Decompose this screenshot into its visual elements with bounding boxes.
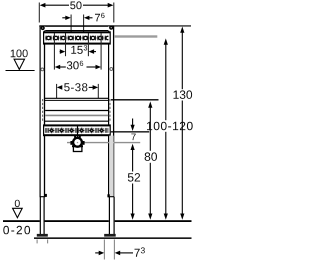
level marker 0 xyxy=(13,200,23,218)
water pipe in right leg xyxy=(109,136,113,197)
washbasin traverse xyxy=(45,98,109,121)
dim line 80 xyxy=(145,101,157,219)
label 0-20 xyxy=(3,226,30,235)
dim line 100-120 xyxy=(147,38,193,219)
dim line 130 xyxy=(174,27,193,220)
hatch stub left foot b xyxy=(47,240,49,244)
rail top hole pattern xyxy=(45,34,109,43)
mounting rail lower xyxy=(44,125,111,136)
level marker 100 xyxy=(6,50,35,71)
dim line 7 and 52 xyxy=(128,119,140,220)
dim 50 extension line left xyxy=(38,3,40,23)
tap center line (7 upper bound) xyxy=(111,131,149,132)
foot plate right xyxy=(104,234,116,237)
extension 30.6 left xyxy=(53,33,55,70)
corner screw right xyxy=(109,26,113,30)
gray range line 100-120 xyxy=(114,35,157,37)
frame right leg xyxy=(108,27,114,198)
dim 50 xyxy=(40,1,114,9)
leg screw circle right xyxy=(110,68,113,71)
raw floor line xyxy=(34,237,192,239)
corner screw left xyxy=(41,26,45,30)
dim 7.3 xyxy=(95,247,145,256)
rail lower hole pattern xyxy=(45,126,109,134)
extension 15.3 right xyxy=(87,33,89,56)
dim 5-38 extension right xyxy=(97,84,99,99)
leg end cap left xyxy=(40,196,46,198)
dim 7.6 extension bar right xyxy=(83,15,85,44)
foot tube right xyxy=(109,197,115,234)
mounting rail top xyxy=(44,32,111,44)
dim 7.6 xyxy=(62,13,104,22)
dim 30.6 xyxy=(55,61,101,70)
foot tube left xyxy=(40,197,45,234)
line 80 level xyxy=(111,99,159,101)
dim 15.3 xyxy=(60,45,96,54)
dim 7.3 extension right xyxy=(113,240,115,260)
tap fixture xyxy=(70,136,84,152)
dim 5-38 xyxy=(57,83,98,91)
top extension line for 130 xyxy=(114,25,191,27)
frame top beam xyxy=(39,25,114,30)
clamp bolt right xyxy=(107,194,109,197)
dim 50 extension line right xyxy=(113,3,115,23)
hatch stub left foot a xyxy=(36,240,38,244)
dim 7.3 extension left xyxy=(103,240,105,260)
leg screw circle left xyxy=(41,68,44,71)
frame left leg xyxy=(40,27,46,198)
finished floor line xyxy=(3,220,192,222)
extension 15.3 left xyxy=(65,33,67,56)
leg end cap right xyxy=(108,196,114,198)
tap connection stub xyxy=(77,126,79,138)
gray line 52 level xyxy=(67,142,140,144)
dim 7.6 extension bar left xyxy=(70,15,72,44)
dim 5-38 extension left xyxy=(56,84,58,99)
traverse dashed end caps xyxy=(43,99,110,122)
clamp bolt left xyxy=(45,194,47,197)
extension 30.6 right xyxy=(100,33,102,70)
foot plate left xyxy=(37,234,48,237)
